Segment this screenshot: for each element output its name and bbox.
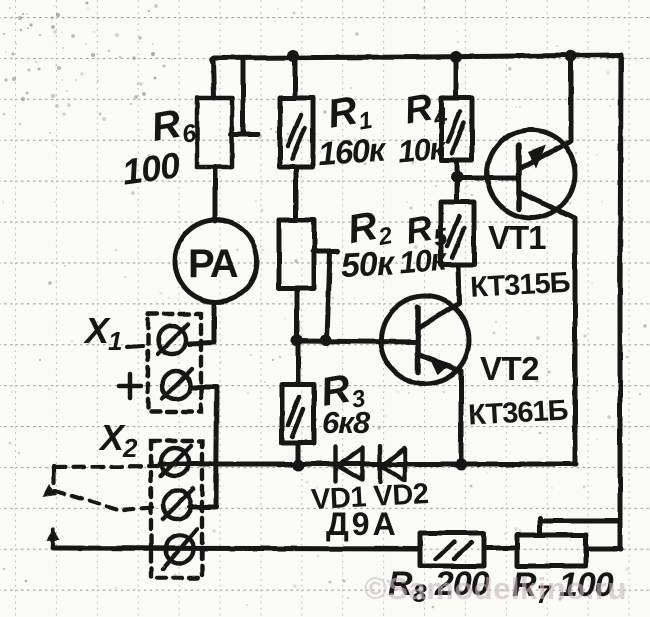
switch arrowhead lower [47,528,60,541]
svg-text:50к: 50к [340,244,397,285]
transistor VT2 circle [381,296,469,384]
transistor VT2 emitter diagonal [417,354,461,371]
transistor VT2 collector diagonal [419,303,459,328]
node dot top rail R1 [287,50,299,62]
switch dashed wire left [54,466,158,467]
transistor VT1 collector wire up [569,57,574,140]
resistor R8 slashes [436,542,472,559]
node dot R3 bottom [292,459,304,471]
transistor VT1 emitter diagonal [521,141,571,168]
transistor VT1 base bar [516,145,522,209]
diode VD1 [336,446,362,481]
wire right rail tap to R7 wiper [540,518,620,534]
resistor R1 slashes [288,115,305,159]
wire X1 pin2 to bottom [190,387,217,507]
wire VT2 emitter down [459,371,464,464]
resistor R4 slashes [448,112,464,153]
wire R4 top lead [454,58,459,98]
wire R6 to PA [213,167,218,221]
transistor VT1 emitter arrowhead [528,145,546,168]
svg-text:©Samodelkino.ru: ©Samodelkino.ru [364,571,627,606]
switch dashed diagonal [55,491,160,510]
svg-text:КТ361Б: КТ361Б [467,394,568,431]
svg-text:6к8: 6к8 [322,405,371,440]
wire R1 to R2 [294,167,299,220]
node dot R2/R3 [291,334,303,346]
node dot top rail R4 [450,51,462,63]
wire top rail [212,55,621,62]
wire R4 to R5 [455,160,460,202]
svg-text:КТ315Б: КТ315Б [469,267,570,304]
transistor VT2 emitter arrowhead [428,356,452,375]
wire R6 top lead [213,59,214,98]
switch bottom tick [51,530,55,548]
switch lever solid tick [52,466,56,483]
node dot top rail VT1 [565,50,577,62]
wire R2 wiper [313,251,338,340]
connector pin X1-1 [158,326,186,354]
wire VT2 base wire [297,341,418,342]
svg-text:10к: 10к [397,241,448,280]
wire R5 to VT2 collector [458,265,459,302]
resistor R5 [441,202,474,265]
wire bottom node2 [53,548,420,549]
wire PA bottom to X1 pin1 [189,302,214,344]
wire R8 to R7 [484,546,517,551]
wire R7 right lead [586,547,621,552]
node dot VT1 base [451,171,463,183]
svg-text:VT2: VT2 [480,350,539,387]
svg-text:Д9А: Д9А [326,506,399,542]
resistor R8 [420,533,484,566]
wire R3 bottom lead [296,443,301,466]
svg-text:160к: 160к [317,130,389,172]
node dot R2 wiper [320,334,332,346]
connector pin X2-1 [161,448,189,476]
transistor VT2 base bar [415,307,421,373]
connector pin X1-2 [162,371,190,399]
transistor VT1 lower diagonal [521,193,575,462]
svg-text:10к: 10к [396,130,447,169]
switch arrowhead upper [42,484,57,497]
resistor R1 [280,98,313,167]
svg-text:VT1: VT1 [488,219,546,256]
wire R2 bottom [295,288,300,340]
wire bottom node1 [160,462,576,467]
wire VT1 base wire [457,176,519,181]
wire right rail [620,55,621,549]
resistor R2 [279,220,314,288]
connector X1 dashed box [148,314,201,412]
svg-text:PA: PA [188,242,238,286]
label plus [119,374,141,398]
wire R6 tap [231,58,258,134]
node dot VT2 emitter bottom [455,458,467,470]
connector pin X2-2 [163,491,191,519]
diode VD2 [380,446,405,482]
resistor R6 [197,98,232,167]
meter PA [175,220,257,302]
resistor R3 [282,384,314,443]
resistor R3 slashes [288,397,303,437]
transistor VT1 circle [487,130,575,218]
wire R1 top lead [293,57,298,98]
resistor R4 [441,98,472,160]
connector pin X2-3 [166,535,194,563]
connector X2 dashed box [151,441,202,578]
svg-text:100: 100 [119,144,182,193]
label X1 dash [127,346,143,347]
resistor R7 [517,535,586,566]
resistor R5 slashes [447,216,464,258]
wire R3 top lead [296,340,301,384]
